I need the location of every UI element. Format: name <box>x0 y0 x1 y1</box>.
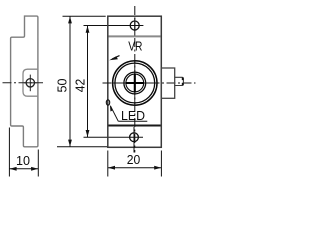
svg-text:42: 42 <box>73 79 88 93</box>
svg-text:LED: LED <box>121 108 145 123</box>
svg-text:10: 10 <box>16 153 30 168</box>
svg-text:50: 50 <box>55 79 70 93</box>
svg-text:VR: VR <box>128 38 142 53</box>
svg-text:20: 20 <box>127 152 141 167</box>
